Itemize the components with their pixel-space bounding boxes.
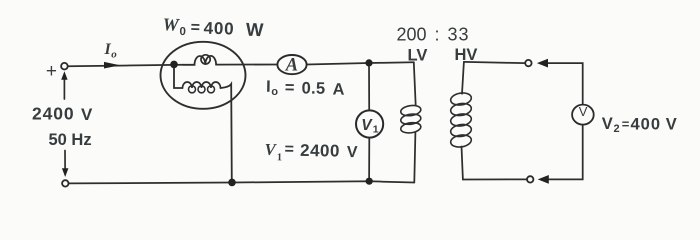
svg-text:LV: LV: [408, 47, 428, 65]
svg-text:+: +: [46, 61, 57, 82]
svg-text:HV: HV: [455, 46, 478, 64]
svg-text:A: A: [285, 55, 298, 75]
svg-text:V: V: [579, 104, 588, 119]
svg-text:50 Hz: 50 Hz: [49, 131, 92, 149]
svg-text:2400V: 2400V: [32, 103, 93, 124]
